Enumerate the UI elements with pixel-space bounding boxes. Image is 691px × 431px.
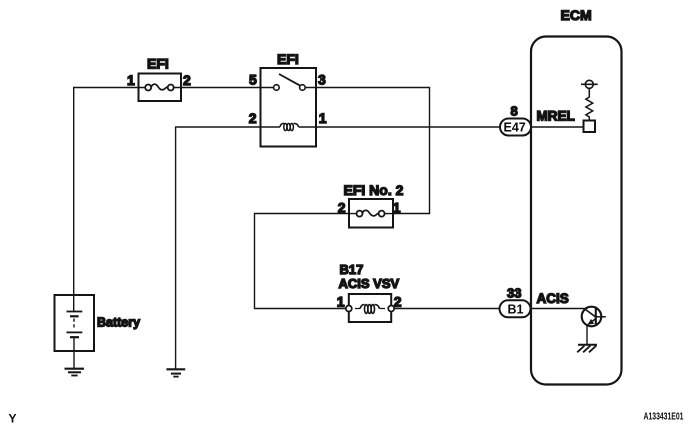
svg-text:ECM: ECM xyxy=(561,7,592,23)
svg-text:Battery: Battery xyxy=(97,316,140,330)
svg-text:1: 1 xyxy=(319,110,327,126)
pin 1 EFI No. 2 fuse xyxy=(393,199,401,215)
svg-text:Y: Y xyxy=(9,412,17,426)
svg-text:EFI: EFI xyxy=(277,51,299,67)
ground below relay coil wire xyxy=(166,369,185,376)
svg-text:2: 2 xyxy=(249,110,257,126)
svg-text:2: 2 xyxy=(338,199,346,215)
svg-text:ACIS: ACIS xyxy=(537,291,569,306)
wire ACIS VSV pin 2 to connector B1 xyxy=(391,308,500,310)
pin 1 relay xyxy=(319,110,327,126)
ECM box xyxy=(531,37,622,385)
connector B1 pin 33 xyxy=(500,300,531,317)
pin number 33 xyxy=(507,286,521,301)
ground below battery xyxy=(65,369,85,376)
resistor inside ECM xyxy=(586,88,593,120)
pin 1 EFI fuse xyxy=(127,72,135,88)
pin 2 EFI No. 2 fuse xyxy=(338,199,346,215)
wire ECM edge to transistor base xyxy=(531,308,585,310)
label MREL xyxy=(537,109,575,124)
svg-text:B17: B17 xyxy=(340,262,364,277)
ground inside ECM xyxy=(577,345,597,353)
label ECM xyxy=(561,7,592,23)
MREL driver square xyxy=(584,121,596,133)
wire relay pin 3 to EFI No. 2 fuse pin 1 xyxy=(316,88,430,214)
page letter Y xyxy=(9,412,17,426)
battery terminal symbol (circle with bar) xyxy=(581,80,598,88)
pin 2 EFI fuse xyxy=(183,72,191,88)
wire ECM edge to MREL square xyxy=(531,126,584,128)
label EFI fuse xyxy=(147,56,169,72)
wire EFI No. 2 fuse pin 2 to ACIS VSV pin 1 xyxy=(255,214,350,309)
svg-text:A133431E01: A133431E01 xyxy=(644,411,684,422)
svg-text:MREL: MREL xyxy=(537,109,575,124)
transistor inside ECM xyxy=(582,307,606,345)
svg-text:1: 1 xyxy=(337,294,345,310)
svg-text:3: 3 xyxy=(318,72,326,88)
solenoid valve B17 ACIS VSV (box, coil, terminals) xyxy=(346,294,394,322)
wire relay pin 1 to connector E47 xyxy=(316,126,500,128)
wire relay pin 2 to ground xyxy=(176,127,261,369)
svg-text:EFI: EFI xyxy=(147,56,169,72)
pin 2 relay xyxy=(249,110,257,126)
pin 2 VSV xyxy=(394,294,402,310)
svg-text:2: 2 xyxy=(183,72,191,88)
pin 5 relay xyxy=(249,72,257,88)
label EFI No. 2 xyxy=(344,182,404,198)
wire battery negative to ground xyxy=(73,337,75,369)
svg-text:8: 8 xyxy=(511,104,518,119)
label ACIS VSV xyxy=(339,276,400,291)
relay EFI (box, switch contacts, coil) xyxy=(261,68,317,147)
document id A133431E01 xyxy=(644,411,684,422)
pin 1 VSV xyxy=(337,294,345,310)
label B17 xyxy=(340,262,364,277)
svg-text:1: 1 xyxy=(127,72,135,88)
label ACIS xyxy=(537,291,569,306)
svg-text:EFI No. 2: EFI No. 2 xyxy=(344,182,404,198)
label EFI relay xyxy=(277,51,299,67)
label Battery xyxy=(97,316,140,330)
wire EFI fuse pin 2 to relay pin 5 xyxy=(181,87,261,89)
svg-text:ACIS VSV: ACIS VSV xyxy=(339,276,400,291)
svg-text:B1: B1 xyxy=(508,303,524,317)
svg-text:5: 5 xyxy=(249,72,257,88)
svg-text:1: 1 xyxy=(393,199,401,215)
connector E47 pin 8 xyxy=(500,119,531,136)
svg-text:E47: E47 xyxy=(504,121,526,135)
pin 3 relay xyxy=(318,72,326,88)
fuse EFI (box and element) xyxy=(139,74,182,102)
pin number 8 xyxy=(511,104,518,119)
svg-text:33: 33 xyxy=(507,286,521,301)
wire battery to EFI fuse pin 1 xyxy=(74,88,139,296)
fuse EFI No. 2 (box and element) xyxy=(349,199,393,228)
svg-text:2: 2 xyxy=(394,294,402,310)
battery xyxy=(55,295,95,351)
